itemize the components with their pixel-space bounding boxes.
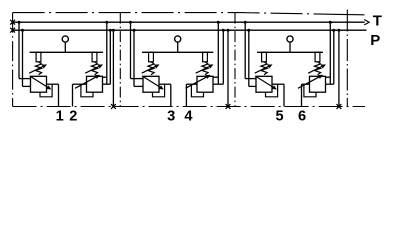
valve 2 lower stub — [103, 83, 111, 85]
section 2 gauge manifold line — [142, 51, 213, 53]
gauge port circle M1 — [62, 36, 68, 42]
valve 4 spring adjust arrow — [196, 66, 211, 73]
svg-text:T: T — [373, 12, 382, 29]
valve 3 spring — [148, 62, 154, 75]
port line 3 — [170, 84, 172, 106]
plugged bottom port 4 — [226, 104, 231, 109]
valve 2 pilot rectangle — [92, 52, 97, 62]
plugged P port (left) — [10, 28, 15, 33]
junction dot P/5 — [247, 29, 250, 32]
valve 3 T stub — [131, 78, 144, 80]
end plate divider (dash-dot) — [346, 10, 348, 107]
valve 2 bottom bypass loop — [81, 84, 93, 97]
svg-text:P: P — [370, 32, 380, 49]
junction dot P/1 — [21, 29, 24, 32]
valve 2 plugged P branch — [112, 30, 114, 106]
junction dot T/4 — [217, 21, 220, 24]
port line 2 — [72, 84, 74, 106]
junction dot P/3 — [133, 29, 136, 32]
junction dot T/5 — [244, 21, 247, 24]
valve 2 spring adjust arrow — [85, 66, 100, 73]
valve 1 body square — [31, 76, 47, 92]
gauge port circle M3 — [287, 36, 293, 42]
valve 3 T supply drop — [130, 22, 132, 78]
valve 5 body square — [256, 76, 272, 92]
valve 4 top drain stub — [213, 76, 218, 78]
port line 6 — [301, 84, 303, 106]
valve 5 internal flow arrow — [255, 76, 274, 88]
valve 3 bottom bypass loop — [153, 84, 165, 97]
valve 3 outlet stub — [159, 83, 171, 85]
valve 5 T stub — [245, 78, 256, 80]
valve 5 P stub — [249, 85, 256, 87]
valve 1 P supply drop — [22, 30, 24, 86]
junction dot P/6a — [332, 29, 335, 32]
valve 2 top drain stub — [103, 76, 107, 78]
valve 4 lower stub — [213, 83, 223, 85]
valve 4 body square — [197, 76, 213, 92]
valve 1 P stub — [23, 85, 31, 87]
valve block enclosure left edge (dash-dot) — [12, 13, 14, 107]
plugged bottom port 2 — [111, 104, 116, 109]
gauge port circle M2 — [175, 36, 181, 42]
svg-text:6: 6 — [298, 108, 306, 124]
valve 4 P feed drop — [222, 30, 224, 84]
valve 1 internal flow arrow — [30, 76, 49, 88]
valve 4 pilot rectangle — [203, 52, 208, 62]
port line 1 — [58, 84, 60, 106]
valve 4 spring — [202, 62, 208, 75]
junction dot P/4b — [227, 29, 230, 32]
valve 1 T stub — [19, 78, 31, 80]
junction dot P/6b — [337, 29, 340, 32]
junction dot T/1 — [18, 21, 21, 24]
valve 2 outlet stub — [73, 83, 87, 85]
valve 5 T supply drop — [244, 22, 246, 78]
valve 3 body square — [143, 76, 159, 92]
valve 6 top drain stub — [326, 76, 331, 78]
valve 2 body square — [87, 76, 103, 92]
svg-text:3: 3 — [167, 108, 175, 124]
valve block enclosure top edge (dash-dot) — [13, 13, 340, 15]
T line arrowhead — [364, 20, 369, 25]
port line 4 — [185, 84, 187, 106]
P line (pressure bus) — [13, 29, 367, 31]
plugged T port (left) — [10, 20, 15, 25]
valve 6 bottom bypass loop — [304, 84, 316, 97]
svg-text:1: 1 — [56, 108, 64, 124]
valve 5 P supply drop — [248, 30, 250, 86]
valve 6 spring adjust arrow — [308, 66, 323, 73]
valve 1 outlet stub — [47, 83, 59, 85]
valve 4 bottom bypass loop — [191, 84, 203, 97]
valve 6 spring — [314, 62, 320, 75]
port line 5 — [283, 84, 285, 106]
valve 3 internal flow arrow — [142, 76, 161, 88]
valve 5 outlet stub — [272, 83, 284, 85]
junction dot P/4a — [222, 29, 225, 32]
valve 6 T drain drop — [329, 22, 331, 84]
svg-text:2: 2 — [69, 108, 77, 124]
valve 6 lower stub — [326, 83, 334, 85]
svg-text:4: 4 — [184, 108, 193, 124]
valve 2 internal flow arrow — [75, 76, 97, 88]
valve 6 outlet stub — [302, 83, 310, 85]
svg-text:5: 5 — [275, 108, 283, 124]
valve 1 bottom bypass loop — [40, 84, 52, 97]
valve 1 spring adjust arrow — [29, 66, 44, 73]
valve 3 pilot rectangle — [149, 52, 154, 62]
valve 3 P stub — [134, 85, 143, 87]
valve 2 P feed drop — [109, 30, 111, 84]
valve 6 pilot rectangle — [315, 52, 320, 62]
valve 5 spring — [261, 62, 267, 75]
valve 1 pilot rectangle — [36, 52, 41, 62]
section 3 gauge stem — [289, 42, 291, 52]
valve 3 spring adjust arrow — [142, 66, 157, 73]
valve 4 internal flow arrow — [186, 76, 208, 88]
junction dot T/6 — [329, 21, 332, 24]
valve 4 outlet stub — [186, 83, 197, 85]
section 1 gauge manifold line — [30, 51, 104, 53]
section 1 gauge stem — [64, 42, 66, 52]
section divider 2-3 (dash-dot) — [234, 13, 236, 107]
valve 4 plugged P branch — [227, 30, 229, 106]
valve 5 pilot rectangle — [262, 52, 267, 62]
section 3 gauge manifold line — [257, 51, 323, 53]
valve 6 body square — [310, 76, 326, 92]
valve 5 spring adjust arrow — [255, 66, 270, 73]
plugged bottom port 6 — [337, 104, 342, 109]
valve 2 T drain drop — [106, 22, 108, 84]
valve 4 T drain drop — [217, 22, 219, 84]
junction dot T/3 — [129, 21, 132, 24]
junction dot T/2 — [105, 21, 108, 24]
junction dot P/2a — [109, 29, 112, 32]
valve block enclosure bottom edge (dash-dot) — [13, 106, 365, 108]
valve 3 P supply drop — [133, 30, 135, 86]
T line (tank bus) — [13, 21, 365, 23]
valve 2 spring — [91, 62, 97, 75]
valve 6 plugged P branch — [338, 30, 340, 106]
section divider 1-2 (dash-dot) — [119, 13, 121, 107]
valve 6 internal flow arrow — [298, 76, 320, 88]
valve 5 bottom bypass loop — [266, 84, 278, 97]
section 2 gauge stem — [177, 42, 179, 52]
valve 1 T supply drop — [18, 22, 20, 78]
junction dot P/2b — [112, 29, 115, 32]
valve 6 P feed drop — [333, 30, 335, 84]
valve 1 spring — [35, 62, 41, 75]
